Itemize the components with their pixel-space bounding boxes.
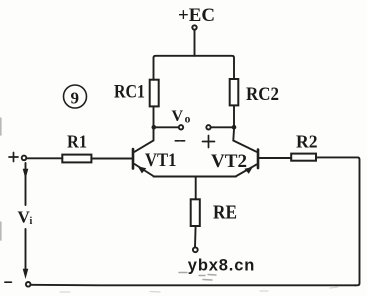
scan noise left edge — [0, 118, 2, 240]
label minus (output polarity) — [175, 140, 184, 142]
remnant of hidden -EE label — [179, 273, 216, 281]
svg-text:VT1: VT1 — [145, 150, 177, 171]
wire RC1 to collector node — [153, 106, 155, 126]
terminal input top — [22, 156, 27, 161]
scan noise bottom — [60, 287, 338, 292]
wire bottom return — [31, 284, 356, 287]
wire right output terminal to node — [211, 126, 234, 128]
svg-text:VT2: VT2 — [211, 151, 247, 172]
terminal Vo left — [179, 125, 183, 129]
svg-text:RC2: RC2 — [246, 84, 279, 105]
wire RC2 to collector node — [233, 105, 235, 126]
transistor VT1 emitter lead — [135, 164, 155, 177]
transistor VT2 base bar — [257, 150, 260, 169]
resistor R2 — [291, 154, 316, 161]
label minus (input) — [5, 281, 11, 283]
transistor VT1 collector lead — [135, 129, 154, 152]
wire node to left output terminal — [154, 126, 179, 128]
svg-text:i: i — [30, 216, 33, 227]
svg-text:R2: R2 — [296, 132, 318, 152]
wire input terminal to R1 — [26, 157, 62, 159]
svg-text:RC1: RC1 — [114, 82, 145, 103]
svg-text:RE: RE — [213, 202, 237, 224]
svg-text:R1: R1 — [67, 131, 87, 151]
svg-text:ybx8.cn: ybx8.cn — [188, 257, 255, 275]
svg-text:o: o — [185, 113, 191, 125]
wire RE to bottom terminal — [194, 226, 197, 247]
terminal Vo right — [206, 125, 210, 129]
svg-text:V: V — [172, 108, 184, 125]
resistor RC1 — [150, 80, 159, 107]
label plus (input) — [9, 153, 18, 162]
figure number 9 circle — [64, 85, 87, 108]
wire top bus — [154, 56, 235, 80]
wire right return vertical — [316, 157, 360, 285]
arrow input bottom (down) — [23, 269, 29, 279]
svg-text:9: 9 — [71, 89, 80, 108]
wire base VT1 from R1 — [92, 158, 132, 160]
wire emitter bus to RE — [195, 177, 197, 200]
transistor VT2 emitter lead — [236, 165, 257, 177]
arrow Vi direction (down) — [23, 169, 29, 179]
wire base VT2 to R2 — [259, 157, 291, 159]
resistor RE — [191, 199, 200, 226]
transistor VT1 emitter arrow (PNP, points to base) — [138, 166, 147, 173]
wire EC supply to top bus — [194, 30, 196, 56]
transistor VT2 collector lead — [233, 129, 256, 152]
node collector VT1 (junction dot) — [152, 125, 157, 130]
node collector VT2 (junction dot) — [232, 125, 237, 130]
terminal input bottom — [26, 282, 31, 287]
transistor VT2 emitter arrow (PNP, points to base) — [244, 167, 252, 174]
wire Vi lower segment — [25, 229, 27, 271]
wire emitter bus — [154, 176, 237, 178]
resistor R1 — [62, 155, 91, 163]
terminal RE bottom — [193, 247, 198, 252]
terminal EC supply — [192, 25, 196, 29]
wire Vi upper segment — [25, 163, 27, 205]
label plus (output polarity) — [203, 136, 215, 148]
resistor RC2 — [230, 79, 239, 105]
transistor VT1 base bar — [132, 149, 135, 169]
svg-text:+EC: +EC — [178, 5, 215, 26]
